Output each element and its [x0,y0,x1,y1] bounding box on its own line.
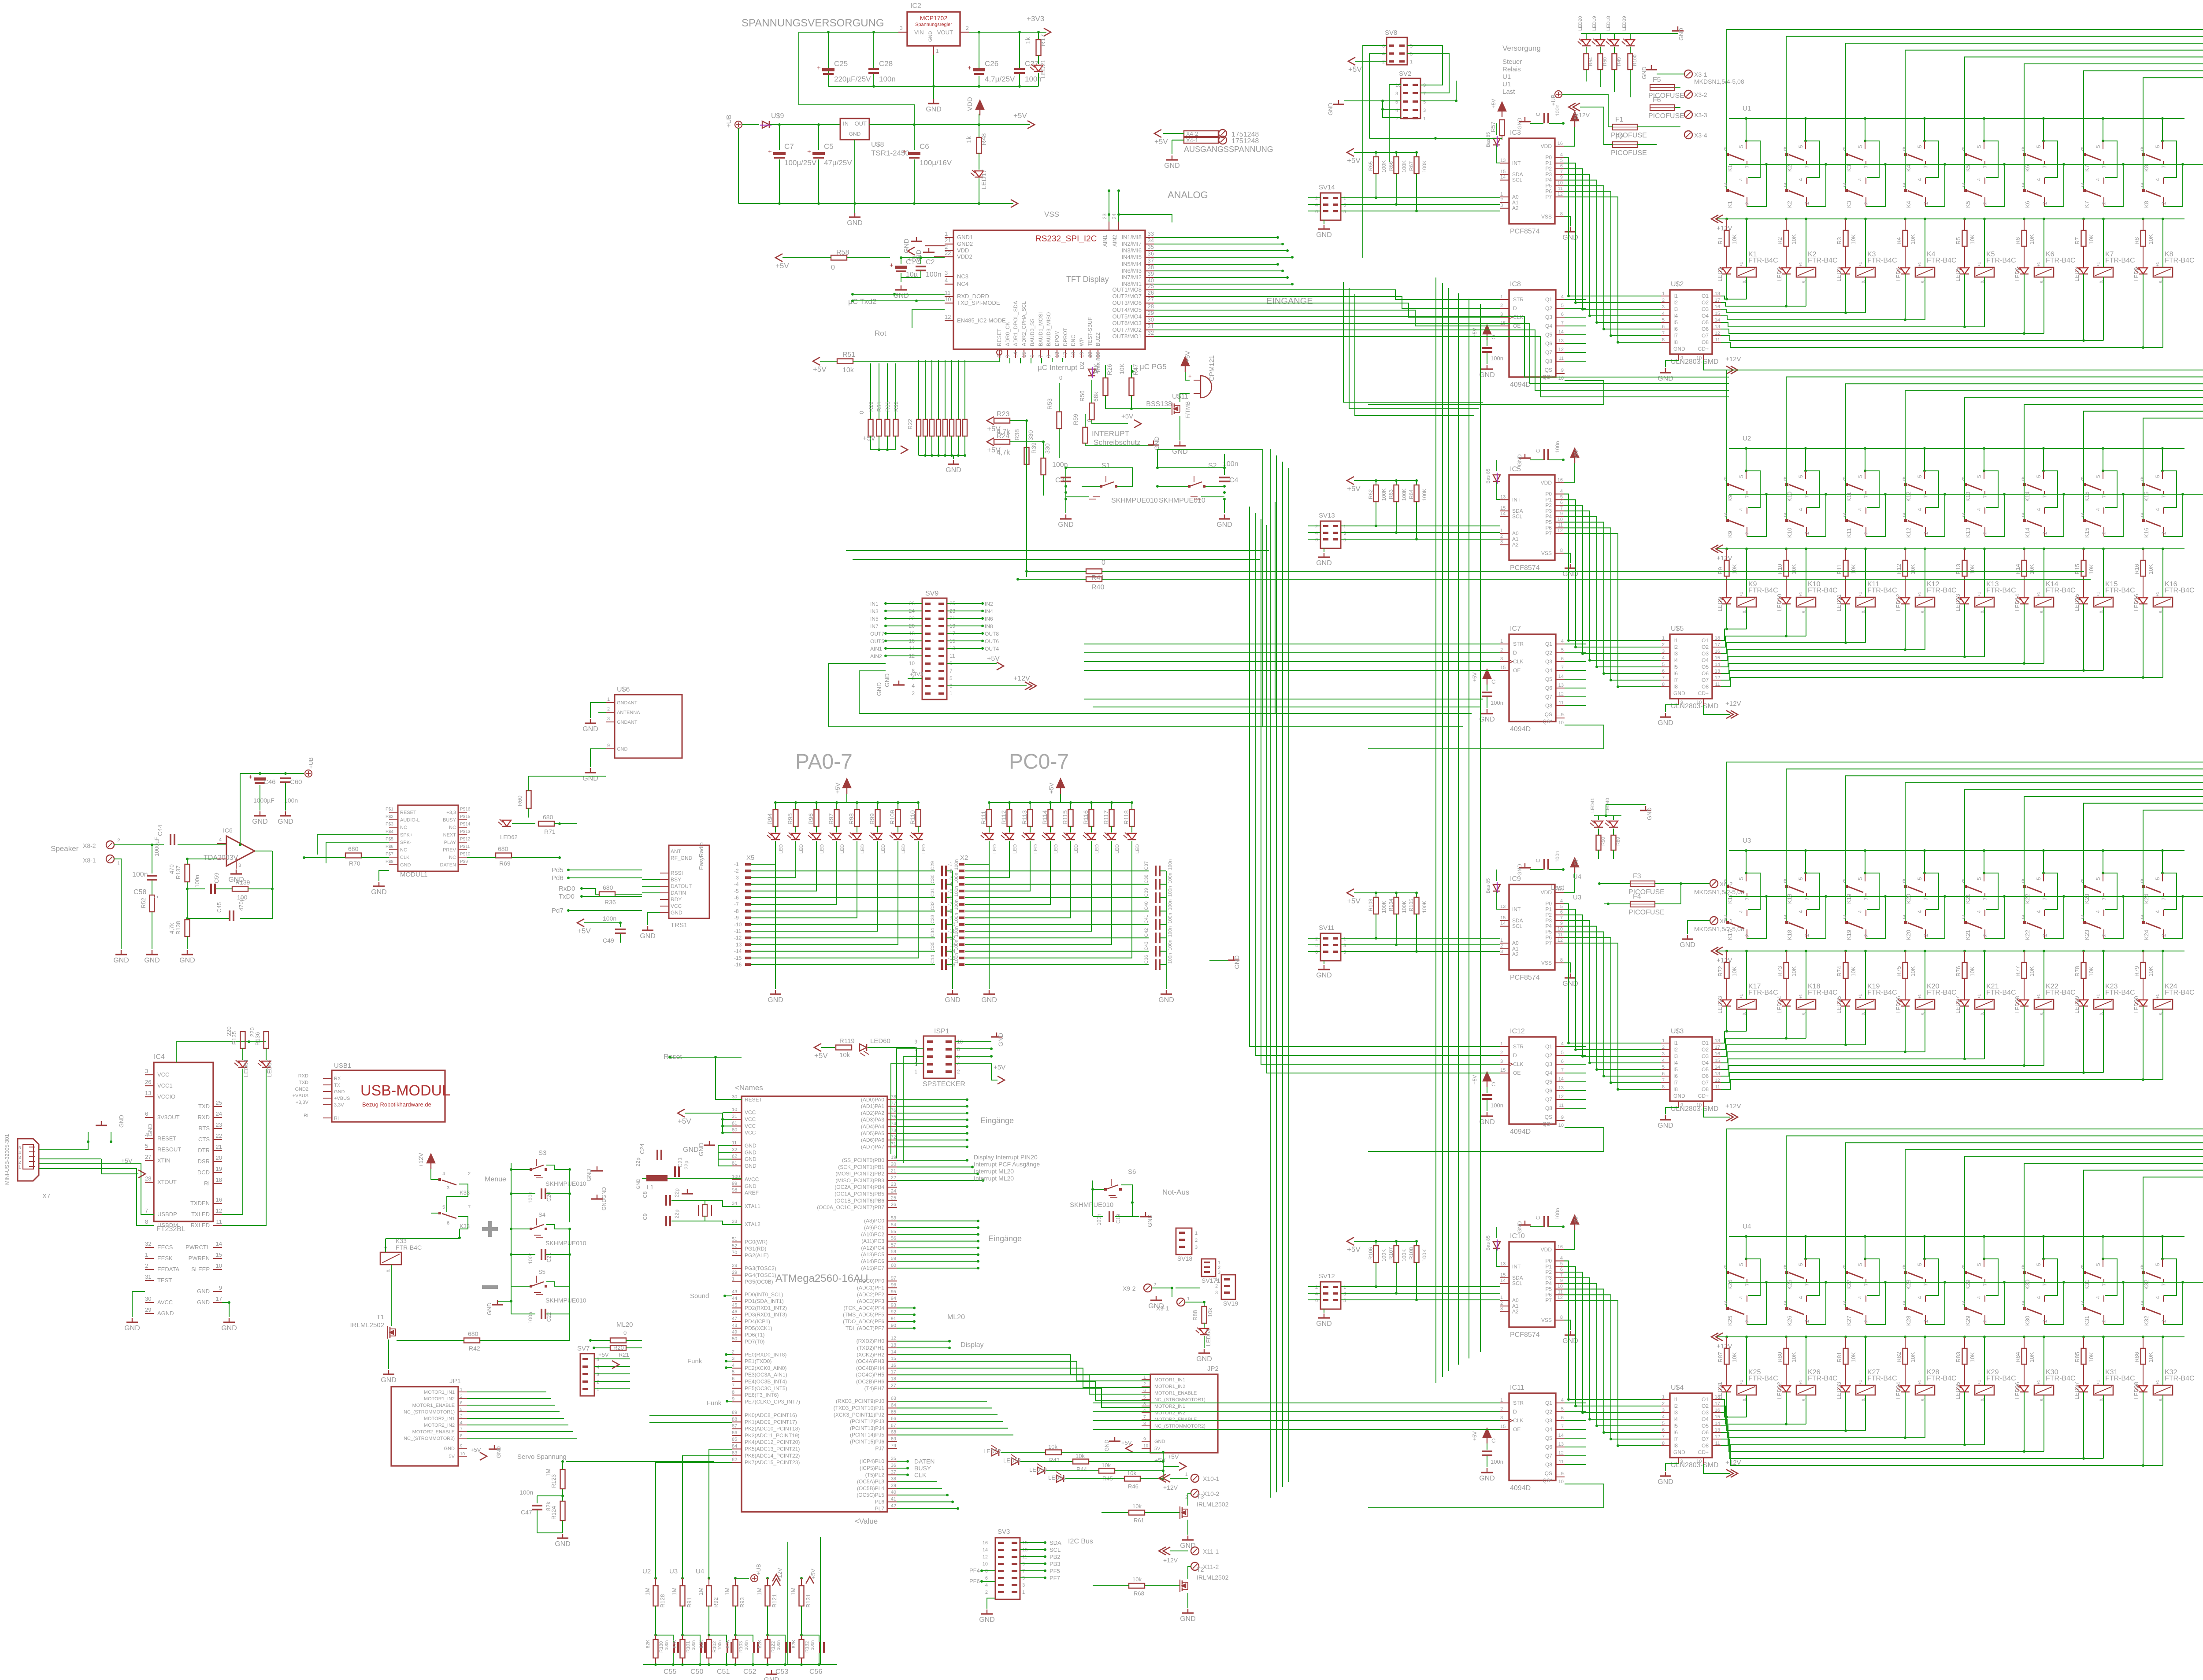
svg-text:OE: OE [1513,1070,1521,1076]
svg-text:19: 19 [216,1166,222,1172]
LED under R96 [812,833,821,840]
svg-text:100n: 100n [1491,699,1503,706]
mid rail [1729,1282,2203,1283]
svg-text:ULN2803-SMD: ULN2803-SMD [1671,358,1718,366]
svg-text:2: 2 [1923,934,1929,937]
svg-text:4: 4 [1560,1256,1563,1261]
svg-text:R104: R104 [1388,899,1394,911]
svg-text:(OC1B_PCINT6)PB6: (OC1B_PCINT6)PB6 [834,1198,884,1204]
resistor array R29-R32 [870,363,871,419]
svg-text:Q5: Q5 [1545,1435,1552,1441]
svg-text:-14: -14 [948,948,956,955]
wire top rail to pin5 K10 [1804,447,1807,450]
wire K24 lower return [2163,896,2183,939]
wire X8-1 down [114,859,121,949]
capacitor C40 [1155,906,1157,916]
svg-text:I1: I1 [1673,637,1678,644]
gnd X3-1 [1657,74,1684,74]
svg-text:(A13)PC5: (A13)PC5 [861,1251,884,1258]
svg-text:13: 13 [891,1343,896,1348]
svg-text:1k: 1k [965,136,973,143]
svg-text:C6: C6 [920,142,929,151]
top rail PC0-7 [989,802,1132,803]
wire K3 lower return [1866,164,1885,207]
svg-text:GND: GND [113,957,129,964]
svg-text:SV11: SV11 [1319,924,1335,932]
svg-text:1M: 1M [671,1587,678,1595]
wire top rail to pin5 K14 [2042,447,2045,450]
resistor R72 10K [1725,950,1728,952]
svg-text:GNDGND: GNDGND [601,1187,607,1210]
svg-text:2: 2 [1923,532,1929,535]
LED under R98 [853,833,861,840]
svg-text:5: 5 [1976,1263,1982,1266]
svg-text:85: 85 [732,1437,737,1442]
svg-text:5: 5 [2036,1263,2042,1266]
svg-text:1: 1 [1195,1231,1198,1236]
svg-text:F4: F4 [1633,893,1641,900]
capacitor C50 100n [700,1642,702,1653]
svg-text:GND: GND [1641,67,1647,79]
svg-text:LED: LED [1074,844,1079,854]
wire +12V to coil pin +1 [2043,548,2045,550]
gnd menu top right [597,1166,597,1171]
svg-text:GNDANT: GNDANT [617,700,638,706]
svg-text:FTR-B4C: FTR-B4C [2165,587,2195,594]
svg-text:GND: GND [1678,28,1684,41]
svg-text:R22: R22 [907,419,913,429]
svg-text:R57: R57 [1490,122,1496,132]
resistor R88 10k LED63 [1204,1302,1205,1306]
svg-text:10K: 10K [2029,564,2035,574]
svg-text:CLK: CLK [1513,1061,1523,1067]
svg-text:10K: 10K [1791,564,1797,574]
svg-text:8: 8 [460,1434,463,1439]
svg-text:(PCINT14)PJ5: (PCINT14)PJ5 [850,1432,884,1438]
svg-text:C46: C46 [263,778,276,786]
wire coil pin 8 and LED to ULN output [1746,1395,1747,1417]
svg-text:2: 2 [1395,116,1398,122]
svg-text:Q2: Q2 [1545,305,1552,311]
svg-text:+1: +1 [1739,592,1743,596]
svg-text:LED24: LED24 [1776,996,1783,1014]
svg-text:LED22: LED22 [983,1448,1001,1454]
svg-text:C: C [1535,859,1541,862]
svg-text:I3: I3 [1673,1053,1678,1059]
svg-text:PICOFUSE: PICOFUSE [1628,909,1665,916]
svg-text:6: 6 [1662,324,1665,329]
svg-text:10: 10 [1558,1284,1563,1289]
svg-text:LED: LED [1135,844,1140,854]
svg-text:X8-1: X8-1 [83,857,96,864]
svg-text:4: 4 [2036,508,2042,511]
capacitor C59 100n [210,884,212,894]
svg-text:20: 20 [891,1162,896,1167]
relay coil K20 [1915,999,1935,1009]
IC IC3 PCF8574 [1509,138,1555,224]
svg-text:PF7: PF7 [1050,1575,1060,1581]
svg-text:13: 13 [1558,1085,1564,1091]
svg-text:100n: 100n [194,875,200,888]
svg-text:4: 4 [1917,178,1923,181]
svg-text:GND: GND [179,957,195,964]
svg-text:10k: 10k [1127,1470,1136,1476]
resistor R39 330 [1043,442,1044,458]
svg-text:82K: 82K [672,1639,678,1648]
svg-text:FTR-B4C: FTR-B4C [1748,257,1778,264]
svg-text:-2: -2 [734,868,739,874]
svg-text:18: 18 [891,1377,896,1382]
relay K21 lower contact [1964,886,1965,922]
svg-text:+: + [890,262,894,269]
capacitor C44 1000uF [114,844,164,845]
IC4 FT232BL [154,1062,213,1221]
svg-text:C23: C23 [677,1158,683,1167]
svg-text:OUT4/MO5: OUT4/MO5 [1113,307,1142,313]
svg-text:U1: U1 [1502,73,1511,81]
svg-text:94: 94 [891,1296,896,1301]
resistor R130 82k [653,1639,658,1658]
resistor R95 [794,801,797,804]
gnd IC3 vss [1564,217,1570,226]
svg-text:GND: GND [1517,1221,1523,1233]
svg-text:T1: T1 [376,1314,384,1321]
wire coil pin 8 and LED to ULN output [1984,607,1985,657]
svg-text:R63: R63 [1388,489,1394,499]
wire top rail to pin5 K29 [1983,1235,1985,1238]
svg-text:(ADC0)PF0: (ADC0)PF0 [857,1278,884,1284]
svg-text:S4: S4 [538,1211,545,1218]
svg-text:1: 1 [1500,1398,1503,1403]
svg-text:R15: R15 [2074,564,2081,574]
svg-text:58: 58 [891,1249,896,1254]
svg-text:18: 18 [1070,352,1076,358]
svg-text:6: 6 [1561,312,1564,317]
svg-text:10K: 10K [2088,564,2095,574]
svg-text:C: C [1491,1437,1495,1444]
svg-text:-15: -15 [948,955,956,961]
svg-text:PG4(TOSC1): PG4(TOSC1) [745,1272,776,1278]
svg-text:10K: 10K [1731,564,1738,574]
resistor R42 680 [464,1338,480,1343]
svg-text:7: 7 [2042,897,2048,900]
svg-text:PD4(ICP1): PD4(ICP1) [745,1318,770,1325]
wire +12V to coil pin +1 [1983,218,1986,220]
svg-text:OE: OE [1513,323,1521,329]
svg-text:220: 220 [226,1026,232,1036]
svg-text:R24: R24 [997,433,1009,440]
svg-text:11: 11 [1715,1441,1720,1446]
svg-text:R10: R10 [1776,564,1783,574]
svg-text:2: 2 [957,1069,960,1075]
svg-text:I3: I3 [1673,1410,1678,1416]
svg-text:4094D: 4094D [1510,1128,1531,1136]
resistor R76 10K [1963,950,1966,952]
svg-text:10: 10 [1696,355,1702,361]
+5V arrow IC3 [1571,112,1579,121]
svg-text:I7: I7 [1673,677,1678,683]
wire +12V to coil pin +1 [1983,950,1986,952]
resistor R69 680 [496,853,512,858]
svg-text:K1: K1 [1727,165,1733,172]
relay K11 lower contact [1845,484,1846,520]
svg-text:R26: R26 [1106,364,1113,375]
svg-text:1: 1 [153,896,159,899]
svg-text:0: 0 [623,1329,627,1336]
svg-text:R121: R121 [771,1594,778,1608]
svg-text:SLEEP: SLEEP [191,1266,210,1273]
svg-text:-10: -10 [734,921,742,928]
svg-text:5: 5 [460,1407,463,1412]
svg-text:14: 14 [1500,1278,1506,1284]
svg-text:2: 2 [1500,534,1503,539]
resistor R131 1M [800,1577,803,1580]
svg-text:+5V: +5V [598,1351,609,1358]
svg-text:LED21: LED21 [1039,59,1046,78]
svg-text:K20: K20 [1905,930,1912,940]
svg-text:66: 66 [891,1416,896,1421]
wire +12V to coil pin +1 [1805,1336,1807,1338]
svg-text:5V: 5V [449,1454,455,1459]
svg-text:K4: K4 [1905,165,1912,172]
wire K13 lower return [1985,494,2004,537]
relay K23 lower contact [2083,886,2084,922]
svg-text:8,: 8, [1921,1012,1925,1015]
svg-text:R7: R7 [2074,237,2081,244]
svg-text:+: + [968,64,972,72]
svg-text:15: 15 [1021,352,1027,358]
gnd cap IC5 [1524,454,1525,458]
svg-text:16: 16 [1715,649,1720,654]
svg-text:30: 30 [145,1295,151,1302]
wire top rail to pin5 K28 [1923,1235,1926,1238]
svg-text:TXD_SPI-MODE: TXD_SPI-MODE [957,300,1000,306]
wire coil pin 8 and LED to ULN output [1746,1009,1747,1031]
svg-text:RESET: RESET [157,1135,176,1142]
svg-text:RESOUT: RESOUT [157,1146,181,1153]
svg-text:D: D [1513,1052,1517,1058]
svg-text:LED4: LED4 [1895,267,1902,281]
svg-text:12: 12 [1715,1434,1720,1439]
LED under R109 [894,833,902,840]
svg-text:4: 4 [1382,52,1385,57]
resistor R14 10K [2023,548,2025,550]
resistor under LED18 [1612,54,1617,70]
svg-text:GND: GND [144,957,160,964]
capacitor C31 [941,892,943,903]
svg-text:7: 7 [1863,495,1869,498]
gnd sv2 [1344,100,1401,101]
relay coil K12 [1915,597,1935,607]
svg-text:SCL: SCL [1050,1547,1061,1553]
svg-text:2: 2 [732,1349,734,1354]
svg-text:3: 3 [1500,1415,1503,1421]
svg-text:QS: QS [1545,1114,1552,1120]
wire K14 lower return [2044,494,2064,537]
svg-text:K19: K19 [1846,894,1852,904]
svg-text:49: 49 [732,1330,737,1335]
svg-text:R71: R71 [544,828,556,835]
svg-text:MKDSN1,5/4-5,08: MKDSN1,5/4-5,08 [1694,78,1744,85]
svg-text:SDA: SDA [1050,1539,1061,1546]
relay K8 lower contact [2143,154,2144,190]
svg-text:2: 2 [1982,1320,1988,1323]
svg-text:RESET: RESET [400,810,416,815]
svg-text:86: 86 [732,1430,737,1436]
svg-text:IRLML2502: IRLML2502 [1197,1501,1229,1508]
svg-text:3: 3 [1215,1290,1218,1295]
svg-text:+1: +1 [2155,262,2160,266]
svg-text:R96: R96 [807,813,814,825]
svg-text:680: 680 [603,884,613,891]
wire coil pin 8 and LED to ULN output [1925,607,1925,650]
svg-text:5: 5 [1976,145,1982,148]
svg-text:K27: K27 [1846,1316,1852,1326]
svg-text:6: 6 [1029,355,1035,358]
svg-text:8,: 8, [1980,280,1984,283]
resistor R139 100 [232,887,248,892]
svg-text:PB2: PB2 [1050,1554,1061,1560]
resistor R112 [1008,801,1011,804]
svg-text:T3: T3 [1197,1493,1204,1500]
svg-text:R103: R103 [1368,899,1374,911]
svg-text:470: 470 [168,864,175,874]
svg-text:OUT6/MO3: OUT6/MO3 [1113,320,1142,326]
relay coil K14 [2034,597,2054,607]
svg-text:25: 25 [216,1099,222,1106]
svg-text:8: 8 [1560,1315,1563,1320]
svg-text:5: 5 [1410,44,1413,49]
capacitor C 100n IC12 [1483,1072,1491,1081]
wire coil pin 8 and LED to ULN output [1984,277,1985,327]
svg-text:67: 67 [891,1423,896,1428]
wire +12V to coil pin +1 [2102,950,2105,952]
svg-text:PK3(ADC11_PCINT19): PK3(ADC11_PCINT19) [745,1432,800,1439]
svg-text:680: 680 [498,845,508,852]
relay coil K31 [2094,1385,2113,1395]
svg-text:EESK: EESK [157,1255,173,1262]
svg-text:41: 41 [891,1496,896,1502]
svg-text:1M: 1M [756,1587,763,1595]
resistor R77 10K [2023,950,2025,952]
wires X1 to relay columns [1727,30,2203,154]
svg-text:-16: -16 [948,962,956,968]
svg-text:GND: GND [221,1325,237,1332]
svg-text:O6: O6 [1702,1429,1709,1436]
wire K19 lower return [1866,896,1885,939]
svg-text:O3: O3 [1702,651,1709,657]
svg-text:C41: C41 [1144,915,1149,924]
svg-text:O3: O3 [1702,306,1709,312]
svg-text:4: 4 [1976,508,1982,511]
svg-text:PE6(T3_INT6): PE6(T3_INT6) [745,1392,779,1398]
svg-text:9: 9 [914,1039,917,1045]
svg-text:+5V: +5V [994,1064,1005,1071]
svg-text:(ICP5)PL1: (ICP5)PL1 [860,1465,884,1471]
svg-text:1M: 1M [724,1587,731,1595]
svg-text:69: 69 [891,1436,896,1442]
svg-text:K8: K8 [2143,165,2150,172]
horizontal lines to 4094 IC7 inputs [1084,644,1500,644]
svg-text:ADR1_DPOL_SDA: ADR1_DPOL_SDA [1012,301,1019,346]
svg-text:PK4(ADC12_PCINT20): PK4(ADC12_PCINT20) [745,1439,800,1445]
relay K29 lower contact [1964,1272,1965,1308]
svg-text:16: 16 [891,1363,896,1368]
svg-text:7: 7 [2161,165,2167,168]
svg-text:7: 7 [949,668,953,674]
svg-text:O8: O8 [1702,339,1709,345]
svg-text:FTR-B4C: FTR-B4C [1748,587,1778,594]
svg-text:P$13: P$13 [460,829,471,834]
wire top rail to pin5 K3 [1864,117,1866,120]
svg-text:10k: 10k [842,366,854,374]
svg-text:(ADC3)PF3: (ADC3)PF3 [857,1298,884,1304]
svg-text:8,: 8, [1742,280,1747,283]
svg-text:C7: C7 [784,142,794,151]
svg-text:C55: C55 [664,1668,676,1676]
svg-text:+5V: +5V [1573,449,1579,459]
relay coil K5 [1975,267,1994,277]
wire coil pin 8 and LED to ULN output [1865,607,1866,643]
svg-text:5: 5 [949,675,953,681]
svg-text:3: 3 [1500,949,1503,955]
svg-text:10k: 10k [1132,1576,1142,1583]
svg-text:2: 2 [912,690,915,696]
svg-text:+1: +1 [1858,994,1862,999]
wire K23 lower return [2104,896,2123,939]
svg-text:LED18: LED18 [1606,16,1611,31]
wires X22 to relay columns [1727,1129,2203,1272]
svg-text:3: 3 [2081,914,2084,920]
svg-text:100K: 100K [1401,901,1407,913]
svg-text:21: 21 [891,1169,896,1174]
svg-text:7: 7 [1923,1283,1929,1286]
wires pcf P to uln I [1564,494,1661,640]
resistor R64 100k [1416,481,1417,485]
svg-text:-1: -1 [734,861,739,867]
LED62 R71 R60 [502,820,511,826]
svg-text:LED3: LED3 [1836,267,1842,281]
wires sv to pcf address [1341,1286,1500,1287]
svg-text:11: 11 [1715,1084,1720,1090]
svg-text:50: 50 [732,1336,737,1342]
svg-text:GND: GND [981,996,997,1004]
svg-text:LED: LED [901,844,906,854]
wires pcf P to uln I [1564,1261,1661,1399]
gnd R138 [187,950,188,955]
svg-text:OE: OE [1513,667,1521,673]
svg-text:22: 22 [945,250,951,256]
svg-text:IC4: IC4 [154,1053,165,1061]
svg-text:(XCK3_PCINT11)PJ2: (XCK3_PCINT11)PJ2 [834,1412,884,1418]
+5V isp [955,1064,991,1075]
svg-text:8,: 8, [386,1269,390,1272]
svg-text:100n: 100n [1168,940,1173,950]
svg-text:17: 17 [1062,352,1068,358]
capacitor C 100n IC9 [1543,859,1545,870]
svg-text:R70: R70 [349,860,360,867]
svg-text:(SS_PCINT0)PB0: (SS_PCINT0)PB0 [842,1157,884,1163]
resistor R122 82k [765,1639,770,1658]
wires X21 to relay columns [1727,762,2203,886]
svg-text:SKHMPUE010: SKHMPUE010 [1159,497,1205,504]
LED under R117 [1107,833,1116,840]
svg-text:RESET: RESET [996,328,1002,346]
svg-text:R119: R119 [839,1037,855,1045]
svg-text:R90: R90 [1601,837,1606,846]
svg-text:R137: R137 [175,866,182,879]
svg-text:LED: LED [1115,844,1120,854]
